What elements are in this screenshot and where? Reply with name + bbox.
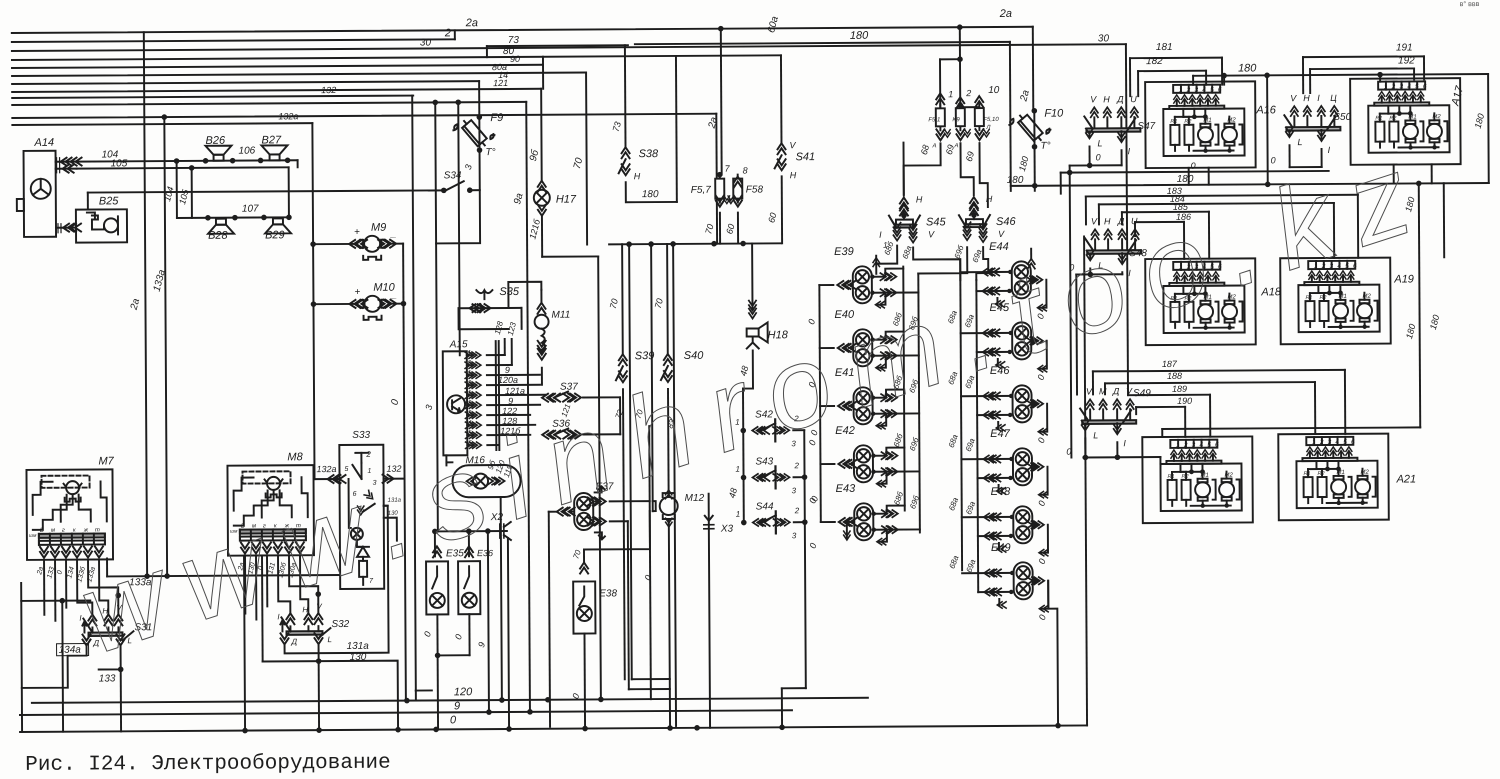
svg-text:A: A [931, 143, 936, 149]
speaker B26 [205, 146, 231, 155]
svg-text:180: 180 [1177, 174, 1194, 185]
lamp E44 [1012, 261, 1031, 298]
svg-text:106: 106 [238, 146, 255, 157]
svg-text:1: 1 [468, 390, 471, 396]
wire 180 vertical x1012 [1009, 42, 1012, 191]
svg-text:H17: H17 [556, 194, 577, 206]
wire 133 [99, 646, 121, 669]
E42 right top wire [872, 448, 904, 456]
E41 right low hook [878, 414, 886, 426]
wire left low 1 [21, 600, 90, 602]
wire left v x20 [20, 583, 23, 732]
svg-text:3: 3 [792, 531, 797, 540]
wire left v x61 [61, 601, 64, 732]
svg-text:30: 30 [420, 37, 432, 48]
E37 connectors [564, 508, 575, 516]
svg-text:2: 2 [365, 450, 371, 459]
M9 connectors [356, 240, 367, 248]
E43 bottom hook [847, 522, 853, 538]
wire 180 x1417 [1419, 183, 1420, 427]
svg-text:в° ввв: в° ввв [1460, 0, 1480, 8]
node B26 dots [203, 158, 209, 164]
wire S31 V up [88, 559, 118, 614]
svg-text:F10: F10 [1044, 108, 1064, 120]
wire 130 out [384, 518, 397, 541]
S33 diode [357, 547, 369, 557]
wire bus line 7 y=81 [12, 81, 479, 84]
wire x468 down [468, 531, 470, 556]
wire S42 left bus [743, 350, 753, 388]
node 133a x166 [164, 573, 170, 579]
svg-text:30: 30 [1098, 33, 1110, 44]
wire 181 [1130, 57, 1222, 60]
E44 right wire [1030, 279, 1037, 281]
switch S37 [549, 394, 560, 402]
svg-text:_: _ [390, 290, 397, 301]
wire bus line 4 y=57 [12, 55, 781, 60]
svg-text:120a: 120a [498, 375, 518, 385]
wire S31 I elbow [77, 560, 92, 615]
S33 resistor [359, 561, 367, 577]
svg-text:0: 0 [1096, 152, 1101, 162]
wire 69b drop [979, 143, 987, 207]
E42 left connector [838, 460, 849, 468]
svg-text:S41: S41 [796, 151, 816, 163]
control unit A14 [24, 151, 57, 237]
switch S42 [740, 428, 746, 434]
svg-text:M7: M7 [98, 455, 114, 467]
E47 left hook [998, 485, 1000, 491]
wire 180 y433 [1162, 427, 1420, 429]
wire bus line 10 y=102 [12, 102, 526, 105]
wire speakers row2 [177, 216, 289, 219]
svg-text:180: 180 [642, 189, 659, 200]
wire bus line 9 y=95 [12, 96, 413, 98]
E48 left hook [998, 543, 1000, 549]
connector hatch B25 [58, 224, 61, 233]
svg-text:6: 6 [1215, 442, 1219, 449]
svg-text:Д: Д [1112, 386, 1120, 396]
svg-text:180: 180 [1238, 62, 1257, 74]
wire S32 L down [318, 645, 321, 730]
M7 terminal wires [43, 560, 45, 615]
svg-text:1: 1 [883, 241, 888, 250]
node F9 top [477, 114, 483, 120]
E40 left connector [838, 344, 849, 352]
svg-text:0: 0 [1271, 155, 1276, 165]
svg-text:180: 180 [850, 30, 869, 42]
wire x434 down [434, 531, 436, 556]
wire col2 bus68a [960, 259, 962, 570]
svg-text:V: V [1086, 386, 1093, 396]
wire riser line2 to 2a [454, 30, 456, 39]
svg-text:T°: T° [486, 147, 496, 158]
switch S44 [741, 520, 747, 526]
node F10 bot [1032, 144, 1038, 150]
switch S31 [88, 614, 96, 625]
switch S45 [902, 143, 904, 196]
E45 left top wire [961, 332, 1012, 334]
wire vertical 9b to H17 [540, 89, 543, 181]
svg-text:K9: K9 [952, 117, 960, 123]
wire E37 left [549, 511, 557, 513]
svg-text:M11: M11 [552, 310, 571, 321]
E46 right wire [1031, 403, 1038, 405]
M16 wires [445, 455, 447, 465]
E43 right mid wire [873, 528, 920, 530]
M10 connectors [356, 300, 367, 308]
S33 internal wires [360, 463, 362, 479]
wire S37-S36 link [619, 397, 621, 434]
wire S49 legs [1084, 438, 1086, 457]
lamp H17 [534, 190, 550, 206]
svg-text:A15: A15 [449, 339, 468, 350]
switch box S33 [339, 445, 384, 589]
svg-text:1: 1 [468, 370, 471, 376]
wire x500 down [501, 531, 502, 700]
wire S50 legs [1289, 145, 1291, 167]
svg-text:1: 1 [948, 89, 953, 99]
speaker B29 [265, 224, 291, 233]
E46 left mid wire [977, 414, 1010, 416]
wire bus line 8 y=89 [12, 89, 541, 92]
wire 131a [284, 506, 389, 654]
node E49 bottom [1055, 723, 1061, 729]
fuse F58 [737, 175, 739, 203]
svg-text:H: H [790, 170, 797, 180]
lamp E42 [854, 445, 873, 482]
svg-text:H: H [1303, 93, 1310, 103]
svg-text:8: 8 [743, 166, 748, 176]
E44 left hook [996, 298, 998, 304]
wire 180 top right [1193, 74, 1488, 76]
wire S49 0 down [1159, 457, 1161, 466]
E39 left connector [837, 281, 848, 289]
wire 132 [384, 478, 405, 480]
svg-text:2a: 2a [999, 8, 1012, 20]
node junction 2a/x723 [718, 26, 724, 32]
fuse F5,7 [719, 175, 721, 180]
wire v x178 [176, 161, 178, 218]
lamp box E38 [573, 581, 595, 633]
E45 left hook [997, 359, 999, 365]
node x314 y243 [310, 241, 316, 247]
svg-text:A14: A14 [33, 137, 54, 149]
E41 right top wire [872, 390, 904, 398]
wire bus line 12 y=122 [12, 123, 312, 125]
E45 left mid wire [977, 351, 1010, 353]
node 105/x193 [189, 165, 195, 171]
wire bus line 2 y=39 [12, 39, 455, 42]
E43 right top wire [873, 506, 905, 514]
E44 left top wire [960, 271, 1011, 273]
svg-text:B28: B28 [208, 230, 229, 242]
svg-text:2: 2 [467, 380, 472, 386]
wire x674 down [673, 244, 676, 726]
lamp E48 [1013, 506, 1032, 543]
fuse K9 [957, 102, 963, 108]
svg-text:A21: A21 [1396, 473, 1417, 485]
svg-text:Д: Д [1116, 94, 1124, 104]
fuse cluster bridge [960, 106, 979, 108]
fuse F5,1 [939, 100, 941, 107]
E49 left top wire [962, 572, 1013, 574]
svg-text:S49: S49 [1133, 388, 1151, 399]
svg-text:H: H [986, 194, 993, 204]
wire A14 pin 104 [56, 161, 77, 163]
svg-text:S35: S35 [499, 286, 520, 298]
svg-text:3: 3 [792, 486, 797, 495]
wires 183-186 [1086, 195, 1358, 197]
svg-text:A19: A19 [1393, 273, 1414, 285]
lamp E37 [574, 493, 593, 530]
svg-text:V: V [789, 140, 796, 150]
wire A14 pin 105 [56, 168, 77, 170]
wiper relay M8 [227, 465, 314, 556]
svg-text:E47: E47 [990, 428, 1011, 440]
headlamp unit box A19 [1280, 258, 1391, 345]
wire 180 line under toprow [1011, 183, 1489, 186]
wire bottom 9 [20, 710, 792, 715]
E47 right wire [1031, 466, 1038, 468]
switch S40 [666, 244, 669, 354]
node F9 bottom [477, 147, 483, 153]
S32 tiny arrow [280, 620, 284, 631]
svg-text:M12: M12 [685, 493, 705, 504]
svg-text:S34: S34 [444, 170, 462, 181]
node x404 y303 [401, 301, 407, 307]
wire H17 down [541, 216, 543, 257]
svg-text:L: L [1297, 137, 1302, 147]
E48 left mid wire [978, 535, 1011, 537]
wire bus line 3 y=48 [12, 44, 1126, 51]
wire bottom 120 [32, 698, 868, 703]
wire 181 branch to A18 [1266, 75, 1269, 184]
svg-text:S50: S50 [1333, 112, 1351, 123]
wire bus line 11 y=115 [12, 114, 716, 118]
svg-text:1: 1 [736, 510, 741, 519]
svg-text:107: 107 [242, 203, 259, 214]
S33 lamp [351, 528, 363, 540]
wire E37 right top [610, 500, 650, 502]
svg-text:U: U [1130, 94, 1137, 104]
wire x243 bottom [244, 556, 245, 731]
svg-text:L: L [1093, 430, 1098, 440]
wire vertical x314 [312, 123, 314, 479]
motor M9 [364, 236, 380, 252]
svg-text:S38: S38 [639, 148, 660, 160]
headlamp unit box A17 [1350, 78, 1461, 165]
svg-text:9: 9 [508, 396, 513, 406]
wire E49 bottom [1048, 581, 1058, 726]
wire vertical to A15 pin [458, 102, 460, 355]
steering wheel symbol [31, 179, 51, 199]
E48 left top wire [962, 516, 1013, 518]
svg-text:2: 2 [793, 461, 799, 470]
wire S45 legs [876, 246, 897, 264]
node S31 L [118, 667, 124, 673]
lamp M16 [452, 465, 520, 497]
switch S39 [621, 244, 624, 354]
node 133a x146 [144, 573, 150, 579]
E39 right low hook [877, 293, 885, 305]
svg-text:192: 192 [1398, 55, 1415, 66]
E39 right mid wire [871, 291, 918, 293]
wire x414 to 120 [415, 691, 417, 701]
svg-text:S32: S32 [331, 619, 349, 630]
wire E37 right bot [610, 520, 628, 522]
wire E38 top [580, 562, 588, 573]
wire M10 row [313, 303, 353, 305]
svg-text:181: 181 [1156, 42, 1173, 53]
wire S31 H elbow [99, 559, 108, 614]
E36 connector [465, 546, 473, 557]
E49 left mid wire [978, 591, 1011, 593]
wire vertical 70 long [586, 72, 587, 244]
S33 top contact [360, 453, 362, 463]
wire 180 top segment [635, 42, 1010, 44]
svg-text:F58: F58 [746, 184, 764, 195]
E45 right wire [1031, 340, 1038, 342]
svg-text:2: 2 [794, 506, 800, 515]
headlamp unit box A16-left [1145, 81, 1256, 168]
headlamp unit box A20 [1142, 436, 1253, 523]
wire M8 left v [261, 555, 264, 661]
wire 191 [1303, 55, 1424, 58]
A15 transistor [447, 395, 465, 413]
svg-text:2: 2 [467, 400, 472, 406]
wire vertical to fuse cluster [959, 27, 961, 59]
horn H18 [751, 243, 753, 308]
E47 left mid wire [978, 477, 1011, 479]
E43 right low hook [879, 530, 887, 542]
wire F10 down [1034, 147, 1036, 191]
wire x404 down to S33 [403, 304, 404, 479]
svg-text:90: 90 [510, 54, 520, 64]
svg-text:H: H [634, 171, 641, 181]
svg-text:A16: A16 [1255, 104, 1277, 116]
svg-text:E48: E48 [991, 486, 1012, 498]
lamp E43 [854, 503, 873, 540]
switch S38 [624, 45, 627, 147]
wire x1085 down [1084, 236, 1087, 725]
wire box A16 stubs down [1188, 168, 1190, 185]
svg-text:189: 189 [1172, 384, 1187, 394]
wire 70 F57 [719, 213, 721, 244]
svg-text:190: 190 [1177, 396, 1192, 406]
E47 left top wire [961, 458, 1012, 460]
switch S36 [549, 431, 560, 439]
svg-text:Рис. I24. Электрооборудование: Рис. I24. Электрооборудование [25, 752, 391, 777]
E42 right low hook [879, 472, 887, 484]
wire bus line 6 y=73 [12, 72, 586, 76]
A15 pins [467, 354, 472, 356]
headlamp unit box A21 [1278, 434, 1389, 521]
label 73 segment [487, 44, 628, 47]
E44 top arrow [1028, 259, 1035, 269]
node S32 L [316, 658, 322, 664]
wire middle bus y245 [609, 243, 781, 244]
svg-text:121: 121 [493, 78, 508, 88]
svg-text:V: V [1290, 93, 1297, 103]
E44 left mid wire [976, 290, 1009, 292]
E40 right low hook [878, 356, 886, 368]
wire right corner 105 [288, 167, 290, 217]
wire v x193 [191, 168, 193, 218]
svg-text:E39: E39 [834, 246, 854, 258]
switch S46 [970, 197, 978, 208]
wire S31 L down [120, 669, 122, 731]
svg-text:73: 73 [508, 35, 520, 46]
wire 192 [1310, 67, 1414, 70]
wire S47 I down [1121, 150, 1123, 165]
speaker B28 [208, 225, 234, 234]
svg-text:105: 105 [111, 158, 128, 169]
lamp E39 [853, 266, 872, 303]
wire vertical 9a long [526, 102, 530, 712]
wire L11 corner down [715, 114, 718, 244]
E35 connector [433, 546, 441, 557]
E39 top arrow [875, 264, 877, 274]
wiper relay M7 [26, 469, 113, 560]
svg-text:187: 187 [1162, 359, 1178, 369]
wire x599 down [598, 256, 601, 699]
wire M9-M10 corner [402, 244, 404, 304]
svg-text:132: 132 [321, 85, 336, 95]
wire A19 right 180 [1443, 183, 1445, 257]
svg-text:+: + [354, 287, 360, 298]
svg-text:6: 6 [1218, 87, 1222, 94]
svg-text:F5,7: F5,7 [691, 185, 712, 196]
svg-text:2: 2 [965, 88, 971, 98]
E48 right wire [1032, 524, 1039, 526]
wire bus line 5 y=65 [12, 65, 543, 68]
wire E38 bottom [583, 634, 586, 729]
svg-text:1: 1 [468, 350, 471, 356]
svg-text:M9: M9 [371, 222, 386, 234]
wire S47 0 bus [1070, 164, 1122, 166]
wire 60 F58 [737, 213, 739, 244]
wire A14 to B25 [56, 227, 76, 229]
fuse F9 [478, 117, 480, 150]
lamp E47 [1013, 448, 1032, 485]
wire S32 I elbow [278, 556, 290, 613]
svg-text:9: 9 [505, 365, 510, 375]
wire x487 down [488, 531, 489, 712]
unit A15 box [443, 351, 468, 455]
motor M10 [364, 296, 380, 312]
svg-text:E49: E49 [991, 542, 1011, 554]
radio B25 box [76, 209, 127, 242]
svg-text:182: 182 [1146, 56, 1163, 67]
lamp E49 [1014, 562, 1033, 599]
svg-text:E43: E43 [836, 483, 857, 495]
svg-text:10: 10 [988, 85, 1000, 96]
wire S34 left [88, 190, 429, 192]
A15 pin wires [487, 354, 505, 356]
svg-text:Д: Д [291, 637, 298, 646]
connector hatch A14 [57, 158, 60, 173]
switch S43 [741, 475, 747, 481]
wire M12 down [669, 519, 670, 728]
wire S38 down 180 [626, 182, 677, 202]
svg-text:S33: S33 [352, 430, 370, 441]
wire 131a out [384, 505, 388, 507]
wire x1128 to S49 [1127, 393, 1129, 396]
svg-text:_: _ [390, 229, 397, 240]
wire S48 0 down [1075, 275, 1078, 395]
wire x630 down [629, 244, 632, 679]
